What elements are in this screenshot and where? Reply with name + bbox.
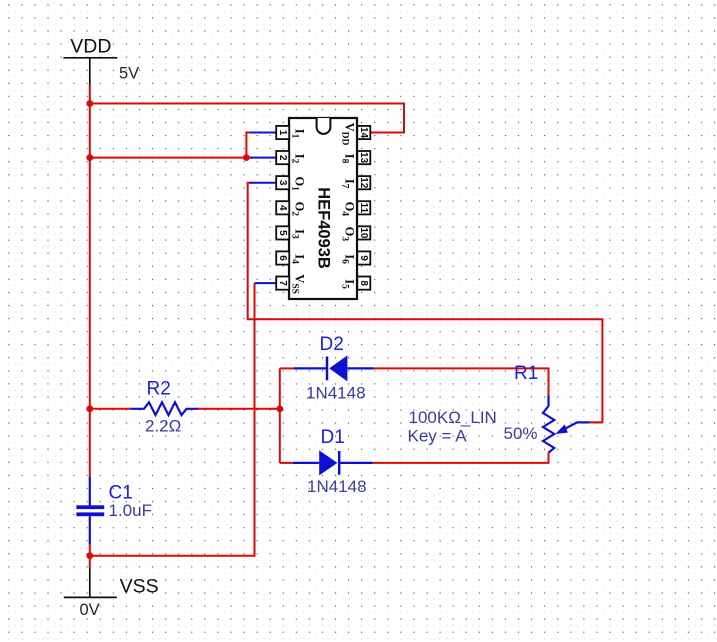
junction rail/R2 bbox=[86, 405, 93, 412]
wiper arrowhead R1 bbox=[555, 424, 568, 434]
svg-text:12: 12 bbox=[358, 177, 369, 189]
resistor R2 bbox=[131, 402, 198, 415]
svg-text:6: 6 bbox=[277, 255, 288, 261]
pin box 14 bbox=[357, 126, 370, 139]
junction R2/diodes bbox=[276, 405, 283, 412]
svg-text:1: 1 bbox=[277, 130, 288, 136]
wire D2 to pot top bbox=[374, 368, 549, 396]
IC notch bbox=[317, 118, 331, 134]
pin box 11 bbox=[357, 201, 370, 214]
svg-text:R1: R1 bbox=[514, 363, 538, 384]
IC body bbox=[289, 118, 357, 299]
diode D2 bbox=[294, 355, 374, 381]
pin box 4 bbox=[276, 201, 289, 214]
power symbol VSS bbox=[64, 568, 117, 597]
pin 3 stub bbox=[250, 182, 276, 184]
svg-text:5V: 5V bbox=[119, 65, 139, 83]
pin box 10 bbox=[357, 226, 370, 239]
svg-text:5: 5 bbox=[277, 230, 288, 236]
svg-text:HEF4093B: HEF4093B bbox=[315, 187, 333, 269]
wire to pin2 bbox=[90, 157, 252, 159]
svg-text:50%: 50% bbox=[504, 424, 538, 443]
svg-text:9: 9 bbox=[358, 255, 369, 261]
wire VDD rail vertical bbox=[89, 85, 91, 476]
pin 2 stub bbox=[250, 157, 276, 159]
pin box 13 bbox=[357, 151, 370, 164]
pin box 5 bbox=[276, 226, 289, 239]
IC U1 HEF4093B bbox=[250, 118, 370, 299]
pin box 1 bbox=[276, 126, 289, 139]
svg-text:8: 8 bbox=[358, 280, 369, 286]
wire rail below C1 bbox=[89, 544, 91, 568]
pin 1 stub bbox=[250, 132, 276, 134]
svg-text:1N4148: 1N4148 bbox=[307, 477, 367, 496]
junction pin1/pin2 bbox=[243, 154, 250, 161]
pin box 12 bbox=[357, 176, 370, 189]
pin box 6 bbox=[276, 251, 289, 264]
svg-text:7: 7 bbox=[277, 280, 288, 286]
svg-text:3: 3 bbox=[277, 180, 288, 186]
svg-text:D1: D1 bbox=[321, 427, 345, 448]
pin box 8 bbox=[357, 277, 370, 290]
svg-text:11: 11 bbox=[358, 203, 369, 214]
svg-text:VSS: VSS bbox=[120, 576, 159, 598]
svg-text:14: 14 bbox=[358, 127, 369, 139]
wire diode branch vertical bbox=[279, 368, 281, 463]
junction at VDD/pin14 wire bbox=[86, 100, 93, 107]
svg-text:4: 4 bbox=[277, 205, 288, 211]
pin box 3 bbox=[276, 176, 289, 189]
svg-text:R2: R2 bbox=[147, 379, 171, 400]
pin box 7 bbox=[276, 277, 289, 290]
power symbol VDD bbox=[63, 58, 117, 85]
wire pin3 to pot wiper bbox=[248, 183, 603, 423]
pin 7 stub bbox=[255, 282, 277, 284]
pin box 2 bbox=[276, 151, 289, 164]
svg-text:2: 2 bbox=[277, 155, 288, 161]
wire D1 to pot bottom bbox=[373, 453, 549, 463]
svg-text:1N4148: 1N4148 bbox=[306, 384, 366, 403]
svg-text:Key = A: Key = A bbox=[408, 426, 468, 445]
svg-text:10: 10 bbox=[358, 227, 369, 239]
wire D2 left bbox=[280, 367, 294, 369]
potentiometer R1 bbox=[543, 396, 589, 453]
svg-text:2.2Ω: 2.2Ω bbox=[145, 417, 181, 436]
pin box 9 bbox=[357, 251, 370, 264]
wire R2 right bbox=[198, 408, 280, 410]
svg-text:1.0uF: 1.0uF bbox=[109, 501, 152, 520]
wire pin1 branch bbox=[246, 133, 252, 158]
wire D1 left bbox=[280, 462, 293, 464]
wire VDD to pin14 bbox=[90, 104, 404, 133]
wire R2 left bbox=[90, 408, 132, 410]
svg-text:VDD: VDD bbox=[70, 35, 111, 57]
svg-text:D2: D2 bbox=[320, 334, 344, 355]
diode D1 bbox=[293, 450, 373, 475]
junction at pin2 wire bbox=[86, 154, 93, 161]
wire wiper stub bbox=[589, 421, 602, 423]
junction rail bottom bbox=[86, 552, 93, 559]
svg-text:0V: 0V bbox=[80, 601, 100, 619]
capacitor C1 bbox=[76, 476, 104, 544]
svg-text:13: 13 bbox=[358, 152, 369, 164]
svg-text:100KΩ_LIN: 100KΩ_LIN bbox=[409, 408, 497, 427]
wire pin7 to bottom rail bbox=[90, 283, 255, 556]
